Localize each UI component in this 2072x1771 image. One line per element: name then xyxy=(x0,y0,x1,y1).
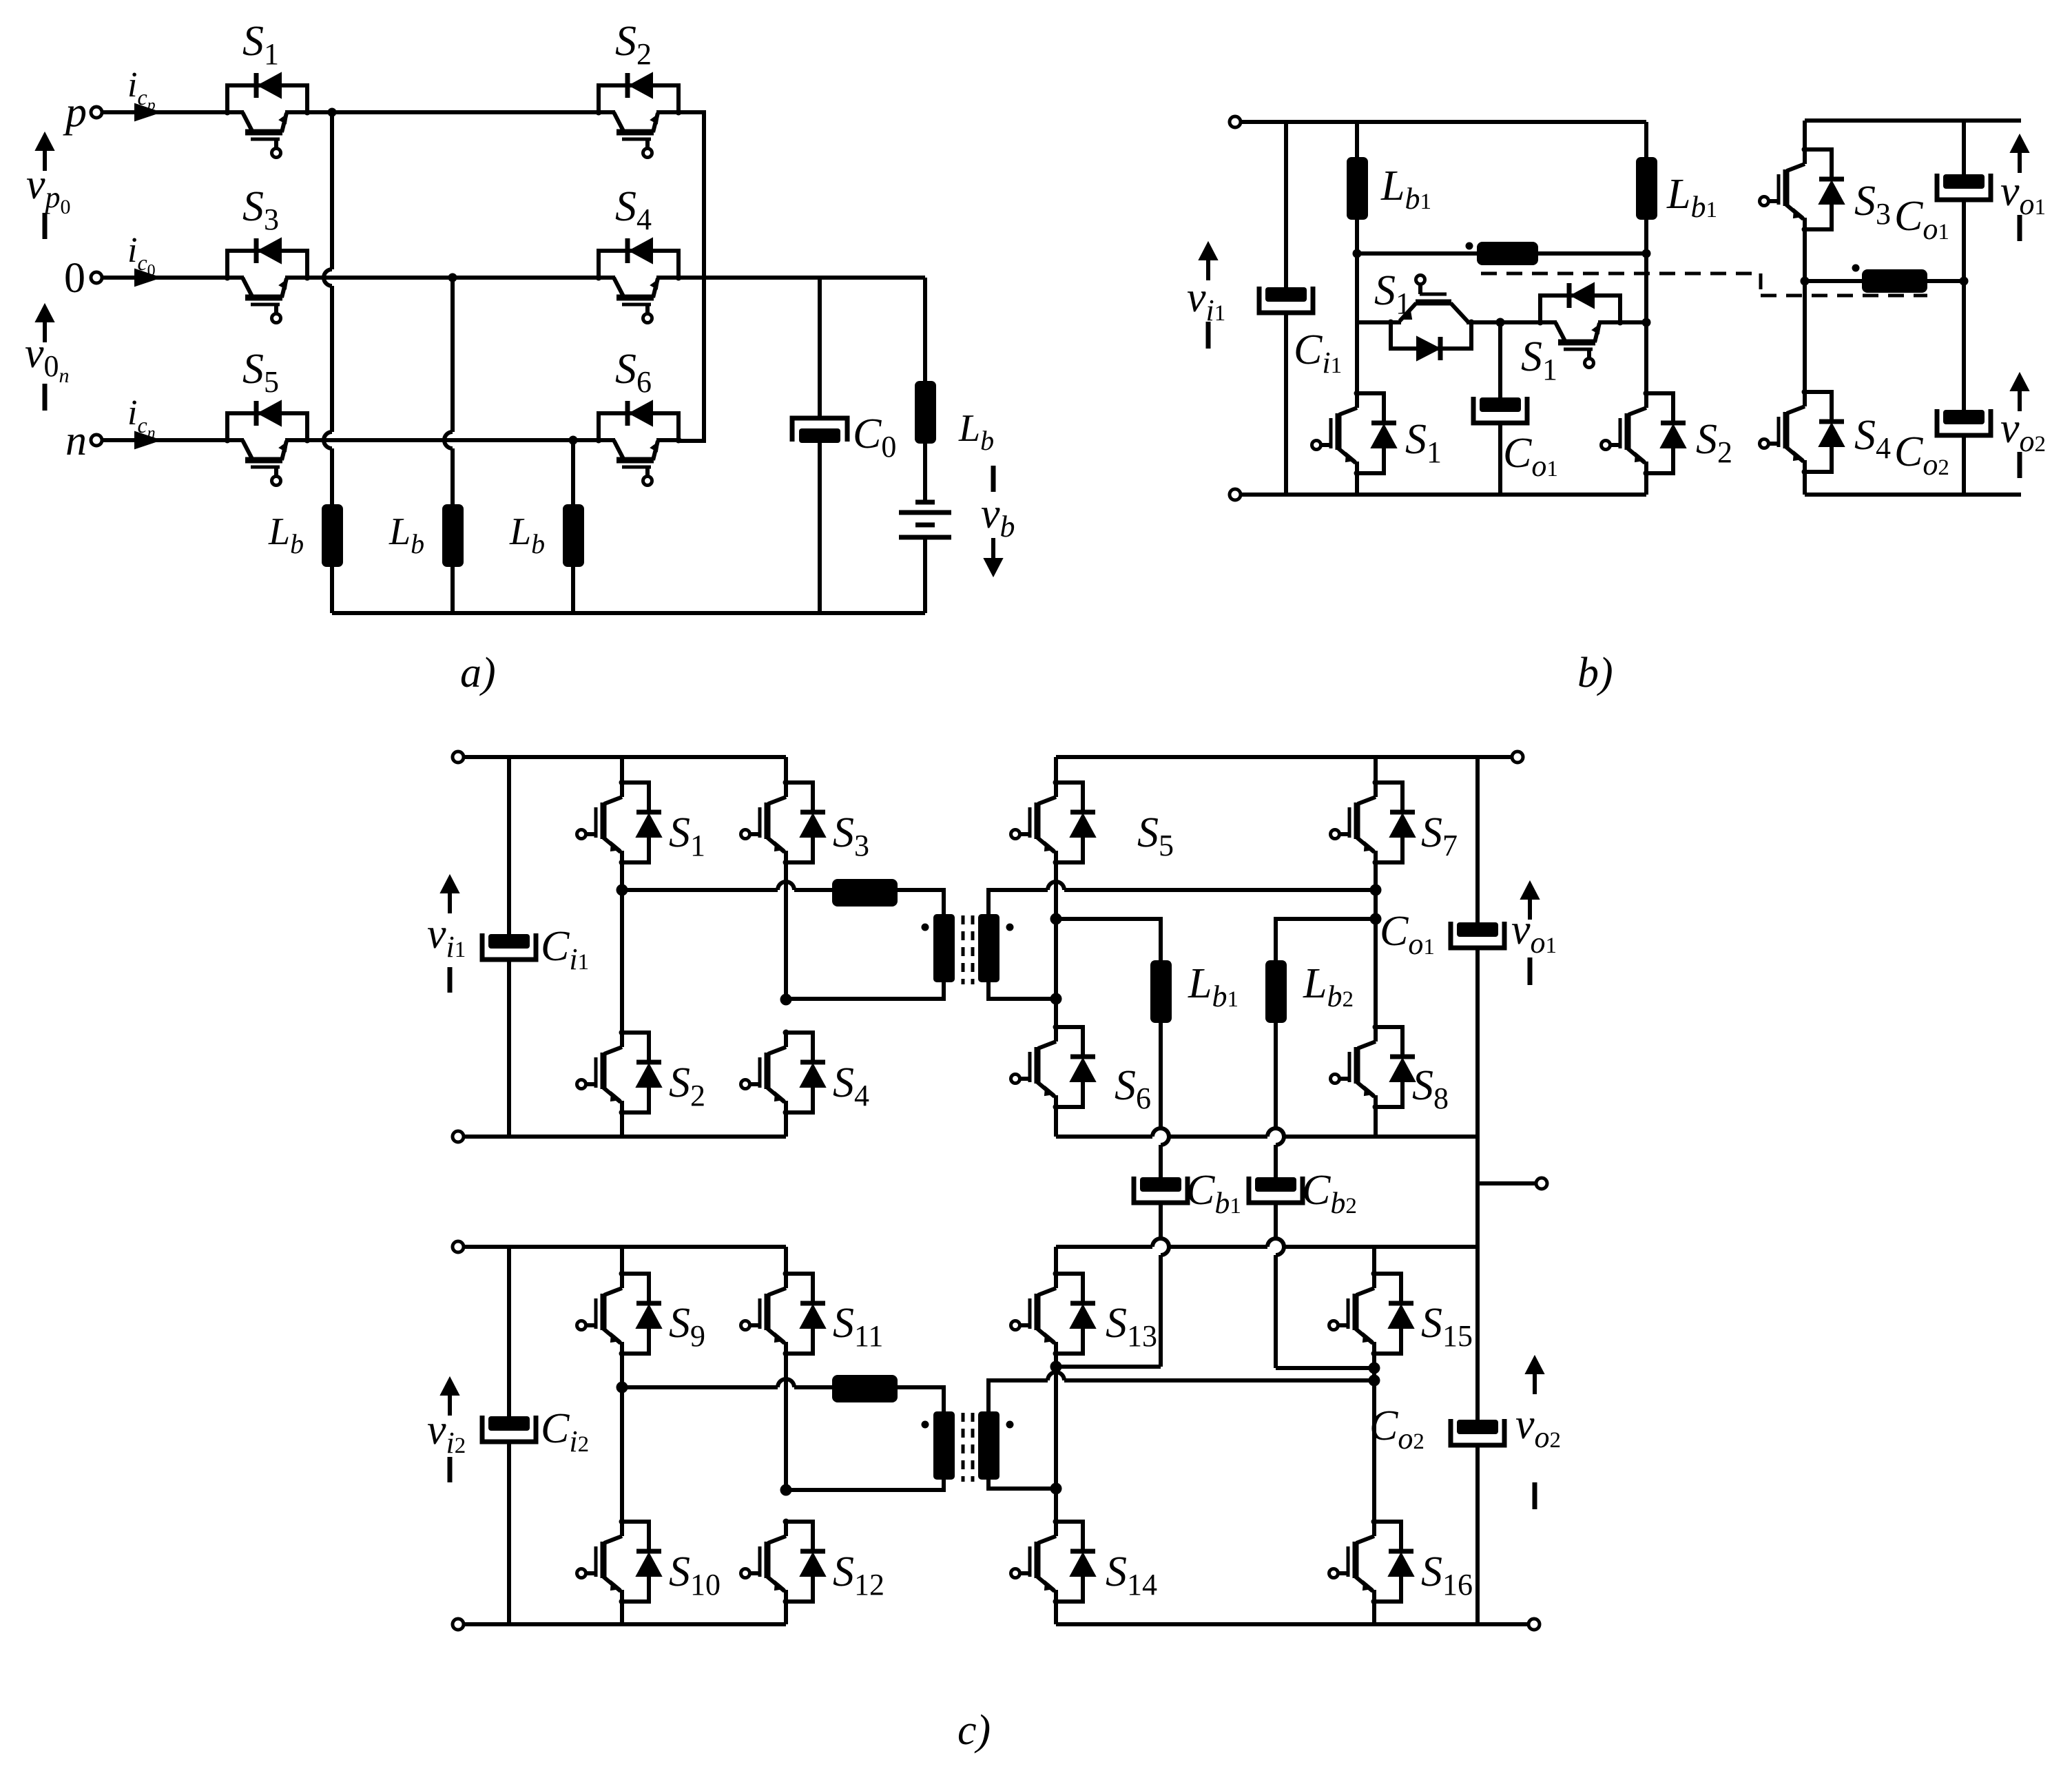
capacitor Ci1 xyxy=(1265,287,1307,302)
wire mid row b segment2 xyxy=(1471,320,1540,324)
annotation v_i1 c xyxy=(441,876,459,893)
node Lb1 bottom junction xyxy=(1050,1361,1062,1373)
switch S6 xyxy=(599,413,678,440)
top rail c-right xyxy=(1056,755,1512,759)
wire left branch mid xyxy=(1355,253,1359,393)
wire S2 leg xyxy=(620,890,624,1033)
node H2 mid-left xyxy=(617,1382,628,1394)
capacitor Co1 middle xyxy=(1480,397,1521,412)
wire vertical from n junction xyxy=(571,440,575,504)
transistor S1 c xyxy=(620,783,624,797)
inductor Lb1 left xyxy=(1347,157,1368,220)
svg-text:a): a) xyxy=(460,650,496,696)
transistor S4 b xyxy=(1803,392,1807,406)
wire S16 bottom xyxy=(1372,1602,1376,1624)
wire Ci1 branch lower xyxy=(1284,313,1288,495)
wire S3-S4 leg mid xyxy=(1803,229,1807,392)
wire Co1 right branch upper xyxy=(1962,121,1966,174)
wire S1 leg top xyxy=(620,757,624,783)
switch S5 xyxy=(227,413,307,440)
capacitor Co1 right xyxy=(1943,174,1985,189)
node primary2 bottom junction xyxy=(780,1484,792,1496)
wire secondary2 top with hop xyxy=(988,1380,1048,1411)
wire Cb2 to bottom section xyxy=(1274,1203,1278,1239)
coupled inductor b-right xyxy=(1862,269,1927,293)
annotation v_o2 b xyxy=(2011,373,2029,391)
svg-text:p: p xyxy=(63,89,87,136)
node Co1 junction xyxy=(1496,318,1505,327)
switch S1 horizontal with diode xyxy=(1416,300,1451,306)
top rail c-left xyxy=(464,755,786,759)
transistor S8 c xyxy=(1374,1027,1378,1042)
transistor S12 xyxy=(784,1522,788,1536)
wire H1 mid with hop xyxy=(622,888,778,892)
wire S7 leg top xyxy=(1374,757,1378,783)
inductor Lb1 c xyxy=(1150,960,1172,1023)
switch S3 xyxy=(227,251,307,278)
top rail c2-left xyxy=(464,1245,786,1249)
wire S12 bottom xyxy=(784,1602,788,1624)
annotation v_i2 xyxy=(441,1378,459,1395)
transistor S6 c xyxy=(1054,1027,1058,1042)
wire vertical from 0 junction with hop xyxy=(450,278,455,432)
node H1 mid-left xyxy=(617,884,628,896)
left rail lower c2 xyxy=(507,1442,511,1624)
wire C0 branch from 0-row xyxy=(818,278,822,418)
wire S9-mid xyxy=(620,1354,624,1387)
wire primary2 bottom xyxy=(786,1480,944,1490)
capacitor Co1 c xyxy=(1457,922,1498,937)
capacitor Ci2 xyxy=(488,1416,530,1431)
wire coupled-inductor row xyxy=(1357,251,1646,256)
node secondary2 top junction xyxy=(1369,1375,1380,1387)
wire Cb1 to bottom section xyxy=(1159,1203,1163,1239)
polarity dot b-left xyxy=(1466,242,1473,250)
node b-right mid xyxy=(1801,277,1810,286)
wire vertical from p junction with hops xyxy=(330,112,334,269)
transistor S7 c xyxy=(1374,783,1378,797)
left rail upper c1 xyxy=(507,757,511,934)
left rail lower c1 xyxy=(507,960,511,1137)
wire S13-mid xyxy=(1054,1354,1058,1522)
wire S2 bottom xyxy=(620,1112,624,1137)
wire left inner branch upper xyxy=(1355,122,1359,157)
transistor S5 c xyxy=(1054,783,1058,797)
node cap branch mid xyxy=(1960,277,1969,286)
terminal c top-left xyxy=(453,752,464,763)
capacitor Co2 right xyxy=(1943,410,1985,424)
right rail c mid xyxy=(1475,948,1480,1247)
switch S4 xyxy=(599,251,678,278)
transistor S16 xyxy=(1372,1522,1376,1536)
polarity dot t2 primary xyxy=(922,1421,929,1429)
wire left branch lower xyxy=(1355,473,1359,495)
wire Co1 branch lower xyxy=(1498,423,1502,495)
wire S4 bottom xyxy=(784,1112,788,1137)
left rail upper c2 xyxy=(507,1247,511,1416)
wire H2 mid with hop xyxy=(622,1385,778,1389)
wire Lb1 top link xyxy=(1056,919,1161,960)
wire S3 leg top xyxy=(784,757,788,783)
node Lb1-left bottom xyxy=(1353,249,1362,258)
switch S1 xyxy=(227,85,307,112)
transistor S4 c xyxy=(784,1033,788,1047)
wire Co2 branch upper xyxy=(1962,281,1966,410)
wire S15 leg top xyxy=(1372,1247,1376,1274)
terminal c2 top-left xyxy=(453,1241,464,1252)
node Lb2 bottom junction xyxy=(1369,1363,1380,1374)
right rail c upper xyxy=(1475,757,1480,922)
transformer1 primary xyxy=(933,914,955,982)
wire Lb1 bottom link xyxy=(1056,1365,1161,1369)
inductor Lb1 right xyxy=(1636,157,1657,220)
svg-text:n: n xyxy=(65,417,87,464)
node secondary bottom xyxy=(1050,993,1062,1005)
transistor S9 xyxy=(620,1274,624,1288)
current arrow i_cp xyxy=(102,110,227,114)
transistor S11 xyxy=(784,1274,788,1288)
leakage inductor c1 xyxy=(832,879,898,907)
transformer2 secondary xyxy=(978,1411,999,1480)
top rail b-left xyxy=(1241,120,1646,124)
svg-text:b): b) xyxy=(1577,650,1613,696)
transistor S2 xyxy=(1644,393,1648,408)
dashed gate link xyxy=(1481,273,1927,296)
transistor S3 c xyxy=(784,783,788,797)
wire n-row to S6 xyxy=(307,438,599,442)
wire S2 to right corner and down to S6 xyxy=(678,112,704,441)
polarity dot t2 secondary xyxy=(1006,1421,1014,1429)
terminal 0 xyxy=(91,272,102,283)
terminal p xyxy=(91,107,102,118)
annotation v_o2 c xyxy=(1526,1356,1544,1374)
wire S7-S8 leg xyxy=(1374,862,1378,1027)
wire Ci1 branch upper xyxy=(1284,122,1288,287)
wire 0-row to S4 xyxy=(307,276,599,280)
capacitor C0 xyxy=(792,418,847,442)
wire S11-S12 leg xyxy=(784,1354,788,1490)
transformer1 secondary xyxy=(978,914,999,982)
wire S3-S4 leg xyxy=(784,862,788,1000)
wire to primary2 top xyxy=(898,1387,944,1411)
wire right inner branch upper xyxy=(1644,122,1648,157)
polarity dot t1 secondary xyxy=(1006,924,1014,931)
bottom rail c-left xyxy=(458,1135,786,1139)
terminal b top-left xyxy=(1230,116,1241,127)
wire primary bottom xyxy=(786,982,944,999)
top rail c2-right with hops xyxy=(1056,1245,1152,1249)
transistor S1 bottom-left xyxy=(1355,393,1359,408)
terminal n xyxy=(91,435,102,446)
wire output mid row xyxy=(1805,279,1964,283)
wire right branch mid xyxy=(1644,253,1648,393)
node sec-top junction xyxy=(1370,884,1382,896)
current arrow i_cn xyxy=(102,438,227,442)
capacitor Co2 c xyxy=(1457,1420,1498,1434)
node Lb1 wire junction xyxy=(1050,913,1062,925)
bottom rail b-left xyxy=(1241,493,1646,497)
annotation v_p0 xyxy=(36,133,54,150)
wire S5 leg top xyxy=(1054,757,1058,783)
annotation v_i1 b xyxy=(1199,242,1217,260)
node junction n-row xyxy=(569,436,578,445)
svg-text:0: 0 xyxy=(64,255,85,302)
battery vb xyxy=(915,500,935,505)
transistor S14 xyxy=(1054,1522,1058,1536)
capacitor Cb2 xyxy=(1255,1177,1296,1192)
transistor S10 xyxy=(620,1522,624,1536)
wire Lb2 lower with hops xyxy=(1274,1023,1278,1128)
wire S14 bottom xyxy=(1054,1602,1058,1624)
transistor S3 b xyxy=(1803,149,1807,164)
wire secondary bottom xyxy=(988,982,1056,999)
inductor Lb right xyxy=(915,381,936,444)
node junction p-row xyxy=(328,108,337,117)
bottom rail c2-left xyxy=(458,1622,786,1626)
node secondary2 bottom xyxy=(1050,1483,1062,1495)
node Lb1-right bottom xyxy=(1642,249,1651,258)
node primary bottom junction xyxy=(780,994,792,1006)
wire S4 leg lower xyxy=(1803,472,1807,495)
wire p-row to S2 xyxy=(307,110,599,114)
wire S9 leg top xyxy=(620,1247,624,1274)
wire to primary top xyxy=(898,890,944,914)
svg-text:c): c) xyxy=(957,1707,991,1754)
leakage inductor c2 xyxy=(832,1375,898,1402)
wire right branch lower xyxy=(1644,473,1648,495)
wire Lb2 bottom link xyxy=(1276,1366,1374,1370)
terminal c top-right xyxy=(1512,752,1523,763)
wire Co1 right branch lower xyxy=(1962,200,1966,281)
wire secondary top with hop xyxy=(988,890,1048,914)
right rail c lower xyxy=(1475,1247,1480,1420)
wire Co1 branch upper xyxy=(1498,322,1502,397)
wire S6 bottom xyxy=(1054,1107,1058,1137)
transformer1 core xyxy=(963,915,973,984)
inductor Lb2 c xyxy=(1265,960,1287,1023)
wire secondary2 bottom xyxy=(988,1480,1056,1489)
wire S8 bottom xyxy=(1374,1107,1378,1137)
wire Lb1 lower with hops xyxy=(1159,1023,1163,1128)
inductor Lb first xyxy=(322,504,343,567)
bottom rail c-right with hops xyxy=(1056,1135,1152,1139)
transistor S2 c xyxy=(620,1033,624,1047)
wire 0-row right segment xyxy=(678,276,925,280)
transformer2 primary xyxy=(933,1411,955,1480)
terminal c2 bottom-left xyxy=(453,1619,464,1630)
terminal mid output xyxy=(1536,1178,1547,1189)
transformer2 core xyxy=(963,1413,973,1482)
top rail b-right xyxy=(1805,118,2021,123)
bottom rail c2-right xyxy=(1056,1622,1529,1626)
polarity dot t1 primary xyxy=(922,924,929,931)
terminal b bottom-left xyxy=(1230,489,1241,500)
transistor S13 xyxy=(1054,1274,1058,1288)
terminal c2 bottom-right xyxy=(1529,1619,1540,1630)
wire Lb2 top link xyxy=(1276,919,1376,960)
wire Co2 branch lower xyxy=(1962,435,1966,495)
bottom rail circuit a xyxy=(332,611,925,615)
current arrow i_c0 xyxy=(102,276,227,280)
switch S1 bidirectional xyxy=(1540,296,1620,322)
right rail c bottom xyxy=(1475,1445,1480,1624)
node junction 0-row xyxy=(448,273,457,282)
wire S11 leg top xyxy=(784,1247,788,1274)
annotation v_o1 b xyxy=(2011,135,2029,152)
wire S1-mid xyxy=(620,862,624,890)
wire right branch down to Lb xyxy=(923,278,927,381)
wire S10 bottom xyxy=(620,1602,624,1624)
capacitor Ci1 c xyxy=(488,934,530,949)
annotation v_o1 c xyxy=(1521,882,1539,899)
wire S10 leg xyxy=(620,1387,624,1522)
label vb with arrow xyxy=(991,466,996,492)
wire mid row b xyxy=(1357,320,1391,324)
wire mid output tap xyxy=(1478,1181,1536,1185)
polarity dot b-right xyxy=(1852,265,1860,272)
transistor S15 xyxy=(1372,1274,1376,1288)
wire S3 leg upper xyxy=(1803,121,1807,149)
terminal c bottom-left xyxy=(453,1131,464,1142)
node Lb2 wire junction xyxy=(1370,913,1382,925)
bottom rail b-right xyxy=(1805,493,2021,497)
wire S13 leg top xyxy=(1054,1247,1058,1274)
inductor Lb third xyxy=(563,504,584,567)
capacitor Cb1 xyxy=(1140,1177,1181,1192)
annotation v_0n xyxy=(36,304,54,322)
inductor Lb second xyxy=(442,504,464,567)
wire S15-S16 leg xyxy=(1372,1354,1376,1522)
wire mid row b segment3 xyxy=(1621,320,1646,324)
wire S5-S6 leg xyxy=(1054,862,1058,1027)
switch S2 xyxy=(599,85,678,112)
coupled inductor b xyxy=(1477,242,1538,265)
node mid right xyxy=(1642,318,1651,327)
